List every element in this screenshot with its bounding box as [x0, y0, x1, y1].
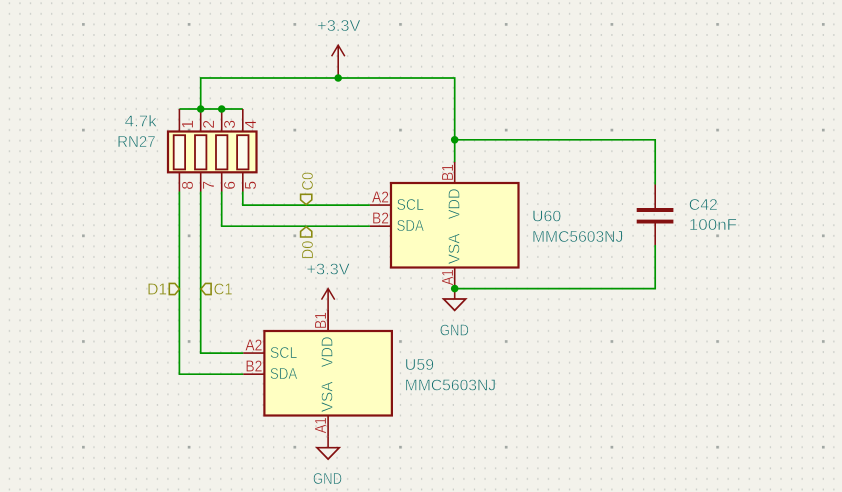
- wire: RN27 pin6 to U60 SDA (net D0): [222, 192, 370, 227]
- wire: RN27 pin8 to U59 SDA (net D1): [179, 192, 243, 375]
- svg-text:GND: GND: [440, 322, 469, 339]
- net label D0 (vertical, on U60 SDA wire): [300, 227, 317, 260]
- svg-text:RN27: RN27: [117, 134, 156, 151]
- svg-text:2: 2: [201, 120, 218, 129]
- resistor network RN27 body: [168, 109, 257, 192]
- svg-text:C0: C0: [300, 172, 317, 191]
- svg-text:U59: U59: [405, 357, 434, 374]
- svg-text:MMC5603NJ: MMC5603NJ: [405, 377, 496, 394]
- junction RN27 pin2: [197, 105, 205, 113]
- svg-text:6: 6: [222, 181, 239, 190]
- power +3.3V (top rail): [317, 18, 361, 78]
- svg-text:4: 4: [243, 120, 260, 129]
- junction C42 branch: [451, 136, 459, 144]
- wire: +3.3V rail from RN27 pin2 riser across top to U60 VDD: [201, 78, 455, 163]
- junction +3.3V rail tap: [334, 74, 342, 82]
- wire: RN27 top bus pins 1-4: [179, 108, 242, 110]
- net label C1 (on RN27 pin7 wire): [201, 282, 233, 299]
- wire: branch from VDD riser to C42 top: [455, 140, 656, 185]
- svg-text:D1: D1: [147, 282, 167, 299]
- svg-text:+3.3V: +3.3V: [317, 18, 361, 35]
- svg-text:100nF: 100nF: [689, 217, 738, 234]
- svg-text:D0: D0: [300, 241, 317, 260]
- svg-text:C1: C1: [214, 282, 233, 299]
- svg-text:U60: U60: [532, 209, 561, 226]
- svg-text:8: 8: [180, 181, 197, 190]
- svg-text:3: 3: [222, 120, 239, 129]
- svg-text:C42: C42: [689, 197, 718, 214]
- wire: C42 bottom to U60 VSA/GND node: [455, 245, 656, 289]
- svg-text:GND: GND: [313, 471, 342, 488]
- net label C0 (vertical, on U60 SCL wire): [300, 172, 317, 205]
- IC U60 (MMC5603NJ magnetometer): [370, 162, 519, 289]
- wire: RN27 pin7 to U59 SCL (net C1): [201, 192, 244, 354]
- power +3.3V (U59 VDD): [306, 261, 350, 331]
- svg-text:7: 7: [201, 181, 218, 190]
- svg-text:MMC5603NJ: MMC5603NJ: [532, 229, 623, 246]
- ground GND (U59 VSA node): [313, 437, 342, 488]
- junction U60 GND node: [451, 285, 459, 293]
- net label D1 (on RN27 pin8 wire): [147, 282, 179, 299]
- svg-text:4.7k: 4.7k: [125, 114, 158, 131]
- svg-text:+3.3V: +3.3V: [306, 261, 350, 278]
- junction RN27 pin3: [218, 105, 226, 113]
- svg-text:5: 5: [243, 181, 260, 190]
- svg-text:1: 1: [180, 120, 197, 129]
- ground GND (U60 VSA node): [440, 289, 469, 340]
- wire: RN27 pin5 to U60 SCL (net C0): [243, 192, 370, 206]
- capacitor C42: [637, 185, 674, 246]
- IC U59 (MMC5603NJ magnetometer): [243, 310, 392, 437]
